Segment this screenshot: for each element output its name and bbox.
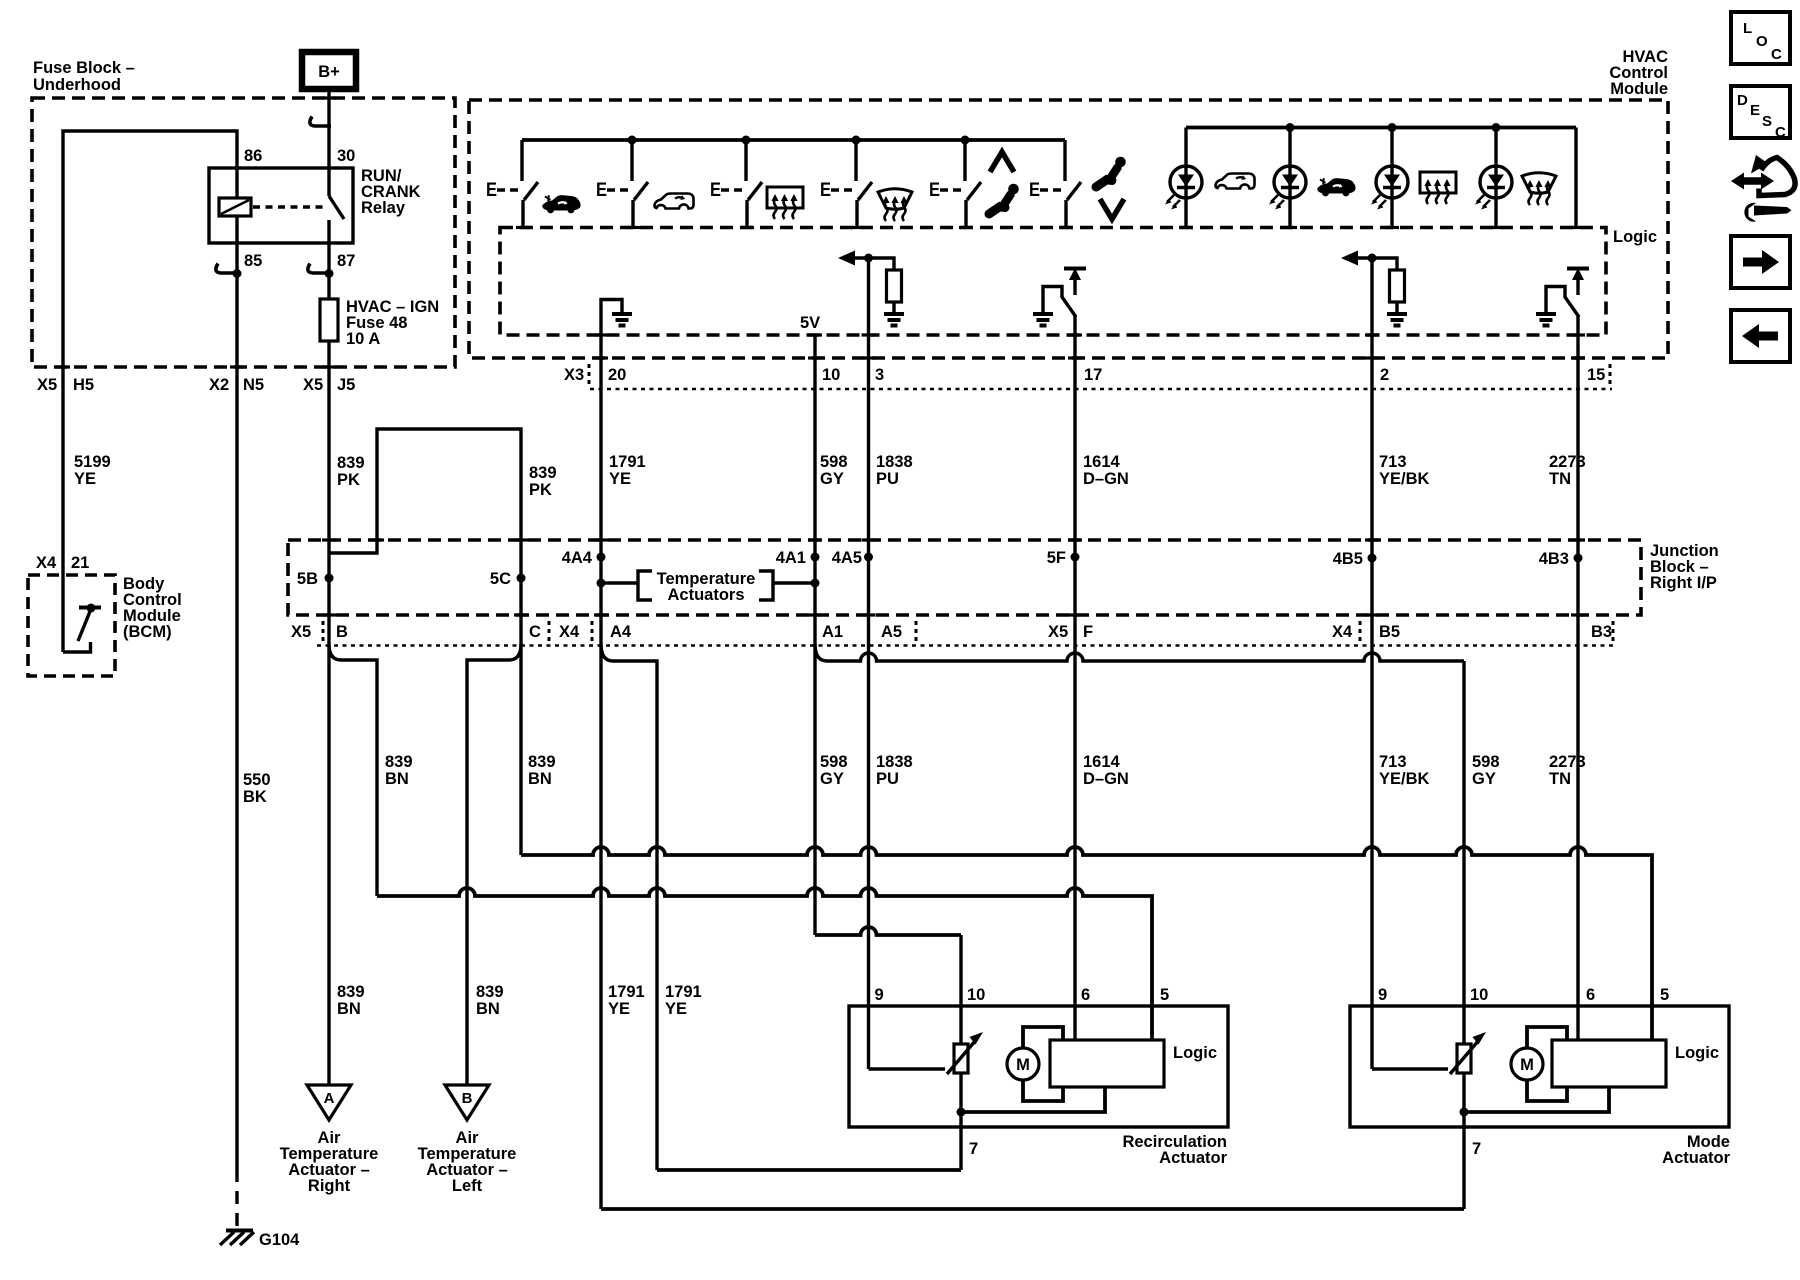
wire B+ to relay 30 (327, 89, 330, 196)
pin3 internal: junction dot (864, 254, 873, 263)
svg-text:15: 15 (1587, 366, 1605, 384)
wire relay 87 down (327, 243, 330, 299)
svg-text:GY: GY (820, 770, 844, 788)
svg-text:839: 839 (529, 464, 557, 482)
svg-text:F: F (1083, 623, 1093, 641)
pin17 internal switch blade (1062, 297, 1076, 317)
svg-text:O: O (1756, 33, 1768, 50)
switch S1 bottom terminal (521, 200, 524, 228)
wire 1614 D-GN pin17 to 5F (1073, 390, 1076, 615)
pin20 internal ground wire (601, 300, 622, 391)
ticks at logic box bottom (594, 333, 608, 336)
svg-text:YE: YE (665, 1000, 687, 1018)
svg-text:PK: PK (337, 471, 360, 489)
wire 5199 YE down to BCM (61, 367, 64, 652)
tick S3 terminal at logic box edge (740, 226, 754, 229)
svg-text:E: E (596, 180, 607, 201)
svg-text:85: 85 (244, 252, 262, 270)
svg-text:4A4: 4A4 (562, 549, 593, 567)
switch S2 E dashed link (607, 188, 631, 192)
logic box (1050, 1040, 1164, 1087)
svg-text:E: E (710, 180, 721, 201)
wire x1464 down to mode pin 10 (1462, 661, 1465, 1044)
icon S5 seat (989, 184, 1019, 214)
839 PK loop 5B to 5C (329, 429, 521, 615)
svg-text:839: 839 (337, 983, 365, 1001)
node 4B3 (1574, 554, 1583, 563)
svg-text:5V: 5V (800, 314, 820, 332)
svg-text:PK: PK (529, 481, 552, 499)
switch S6 E dashed link (1040, 188, 1064, 192)
icon LED2 A/C filled car (1317, 178, 1356, 196)
pin3 internal left arrow (852, 256, 869, 259)
svg-text:839: 839 (337, 454, 365, 472)
pin2 wire down (1370, 258, 1373, 390)
wire y935 598 GY to recirc pin 10 (815, 927, 961, 935)
module connector row bottom dotted line (590, 388, 1612, 390)
svg-text:Actuator: Actuator (1159, 1149, 1227, 1167)
svg-text:X5: X5 (1048, 623, 1068, 641)
wire H5 branch to relay 86 (63, 131, 237, 367)
svg-text:4A5: 4A5 (832, 549, 862, 567)
svg-text:Actuators: Actuators (667, 586, 744, 604)
wire 598 GY pin10 to 4A1 (813, 390, 816, 615)
wire 1838 PU pin3 to 4A5 (867, 390, 870, 615)
wire 550 BK dashed segment to ground (235, 1169, 238, 1228)
icon LED1 recirculation car (1215, 174, 1254, 189)
svg-text:TN: TN (1549, 770, 1571, 788)
tick S5 terminal at logic box edge (959, 226, 973, 229)
switch bus wire left (522, 138, 1065, 142)
ticks at fuse block bottom edge (56, 365, 70, 368)
switch S4 E dashed link (831, 188, 855, 192)
node 5C (517, 574, 526, 583)
wire A4 straight down (1791 YE) (599, 615, 602, 1209)
wire A5 down to recirc pin 9 (1838 PU) (867, 615, 870, 1069)
svg-text:S: S (1762, 113, 1772, 130)
icon S6 chevron down (1100, 199, 1124, 219)
pin17 internal ground branch (1043, 287, 1062, 314)
svg-text:E: E (820, 180, 831, 201)
svg-text:713: 713 (1379, 753, 1407, 771)
svg-text:N5: N5 (243, 376, 264, 394)
connector clip on B+ wire (310, 117, 331, 127)
switch S2 blade (634, 182, 648, 200)
svg-text:C: C (1771, 46, 1782, 63)
temperature actuators tap dots (597, 579, 606, 588)
svg-text:B+: B+ (318, 63, 340, 81)
pin15 internal ground branch (1546, 287, 1565, 314)
wire y1170 recirc pin7 link (657, 1168, 961, 1172)
svg-text:A4: A4 (610, 623, 632, 641)
LED D3 symbol (1371, 166, 1408, 210)
pin 9 internal wire to pot wiper (1372, 1067, 1448, 1070)
wire dot to logic bottom (1464, 1087, 1609, 1112)
fuse block underhood dashed box (32, 98, 455, 367)
icon S2 recirculation car (654, 194, 693, 209)
switch S6 bottom terminal (1064, 200, 1067, 228)
svg-text:BN: BN (528, 770, 552, 788)
motor M (1511, 1048, 1543, 1080)
svg-text:Logic: Logic (1675, 1044, 1719, 1062)
switch S3 E dashed link (721, 188, 745, 192)
module row right end separator (1609, 364, 1612, 384)
svg-text:2: 2 (1380, 366, 1389, 384)
svg-text:6: 6 (1586, 986, 1595, 1004)
tick S1 terminal at logic box edge (516, 226, 530, 229)
svg-text:E: E (929, 180, 940, 201)
icon S3 rear defrost (767, 187, 803, 219)
svg-text:X3: X3 (564, 366, 584, 384)
fuse 48 symbol (320, 299, 338, 341)
svg-text:4B3: 4B3 (1539, 550, 1569, 568)
wire F down to recirc pin 6 (1614 D-GN) (1073, 615, 1076, 1041)
relay 87 stub (327, 220, 330, 243)
module row separator (588, 364, 591, 384)
switch S1 E dashed link (497, 188, 521, 192)
svg-text:17: 17 (1084, 366, 1102, 384)
svg-text:87: 87 (337, 252, 355, 270)
LED D2 top wire (1288, 128, 1291, 167)
svg-text:20: 20 (608, 366, 626, 384)
junction dot pin7 (1460, 1108, 1469, 1117)
pin20 ground (612, 314, 632, 326)
svg-text:7: 7 (969, 1140, 978, 1158)
svg-text:A1: A1 (822, 623, 843, 641)
svg-text:X5: X5 (37, 376, 57, 394)
svg-text:YE: YE (609, 470, 631, 488)
svg-text:B5: B5 (1379, 623, 1400, 641)
svg-text:A5: A5 (881, 623, 902, 641)
svg-text:839: 839 (476, 983, 504, 1001)
pin10 wire from 5V (813, 335, 816, 390)
svg-text:Right I/P: Right I/P (1650, 574, 1717, 592)
ticks at junction block top (322, 538, 336, 541)
junction block dashed box (288, 540, 1641, 615)
svg-text:10 A: 10 A (346, 330, 380, 348)
svg-text:YE/BK: YE/BK (1379, 470, 1430, 488)
svg-text:9: 9 (1378, 986, 1387, 1004)
node 4B5 (1368, 554, 1377, 563)
switch S2 bottom terminal (631, 200, 634, 228)
potentiometer (954, 1044, 968, 1073)
switch S5 bottom terminal (964, 200, 967, 228)
junction row bottom dotted line (317, 644, 1614, 646)
tick B+ wire at fuse box top (322, 96, 336, 99)
svg-text:5F: 5F (1047, 549, 1066, 567)
LED D1 symbol (1165, 166, 1202, 210)
svg-text:E: E (1750, 102, 1760, 119)
svg-text:Left: Left (452, 1177, 483, 1195)
wire relay 85 down (550 BK to G104) (235, 216, 238, 1169)
svg-text:598: 598 (820, 453, 848, 471)
pin15 wire down (1576, 316, 1579, 390)
svg-text:6: 6 (1081, 986, 1090, 1004)
svg-text:10: 10 (822, 366, 840, 384)
svg-text:1791: 1791 (609, 453, 646, 471)
LED D3 bottom wire (1390, 198, 1393, 228)
svg-text:3: 3 (875, 366, 884, 384)
wire 2273 TN pin15 to 4B3 (1576, 390, 1579, 615)
node 5F (1071, 553, 1080, 562)
ticks at module box bottom (594, 356, 608, 359)
svg-text:H5: H5 (73, 376, 94, 394)
svg-text:(BCM): (BCM) (123, 623, 172, 641)
svg-text:E: E (486, 180, 497, 201)
bus junction dots (628, 136, 637, 145)
pin3 wire down (867, 258, 870, 390)
tick S6 terminal at logic box edge (1059, 226, 1073, 229)
wire 1791 YE pin20 to 4A4 (599, 390, 602, 615)
svg-text:TN: TN (1549, 470, 1571, 488)
svg-text:5: 5 (1160, 986, 1169, 1004)
node 4A4 (597, 553, 606, 562)
switch S6 blade (1067, 182, 1081, 200)
pin2 internal: junction dot (1368, 254, 1377, 263)
switch S4 blade (858, 182, 872, 200)
svg-text:839: 839 (385, 753, 413, 771)
switch S1 top terminal (520, 140, 523, 181)
wire 713 YE/BK pin2 to 4B5 (1370, 390, 1373, 615)
B+ power symbol (302, 52, 356, 89)
motor M (1007, 1048, 1039, 1080)
mode actuator box (1350, 1006, 1729, 1127)
svg-text:21: 21 (71, 554, 89, 572)
bus end wire into logic (1574, 128, 1577, 228)
wire fuse to junction block (839 PK) (327, 341, 330, 615)
logic box (1552, 1040, 1666, 1087)
relay RUN/CRANK box (209, 168, 353, 243)
svg-text:1838: 1838 (876, 753, 913, 771)
motor to logic brackets (1023, 1027, 1063, 1048)
pin3 internal resistor to ground (869, 258, 895, 270)
wire A4 branch to x657 (1791 YE) (601, 644, 657, 1170)
next button right arrow (1731, 236, 1790, 288)
svg-text:X4: X4 (36, 554, 57, 572)
svg-text:YE/BK: YE/BK (1379, 770, 1430, 788)
pin2 internal left arrow (1355, 256, 1372, 259)
LED D4 bottom wire (1494, 198, 1497, 228)
icon LED4 windshield defrost (1522, 173, 1556, 205)
svg-text:L: L (1743, 20, 1752, 37)
HVAC control module dashed box (469, 100, 1668, 358)
svg-text:10: 10 (967, 986, 985, 1004)
relay switch blade (329, 196, 344, 219)
svg-text:1614: 1614 (1083, 753, 1121, 771)
svg-text:5: 5 (1660, 986, 1669, 1004)
svg-text:Logic: Logic (1173, 1044, 1217, 1062)
svg-text:PU: PU (876, 770, 899, 788)
LED bus dots (1286, 123, 1295, 132)
svg-text:Logic: Logic (1613, 228, 1657, 246)
wire C straight down (839 BN) to bus (519, 615, 522, 855)
svg-text:BN: BN (476, 1000, 500, 1018)
svg-text:YE: YE (608, 1000, 630, 1018)
BCM internal switch (63, 642, 91, 652)
wire A1 straight down (598 GY) (813, 615, 816, 935)
icon S4 windshield defrost (878, 189, 912, 221)
svg-text:Relay: Relay (361, 199, 406, 217)
svg-text:M: M (1016, 1056, 1030, 1074)
svg-text:1614: 1614 (1083, 453, 1121, 471)
relay coil-switch dashed link (253, 205, 324, 209)
svg-text:5B: 5B (297, 570, 318, 588)
wire C branch to x467 down to triangle B (839 BN) (467, 644, 521, 1085)
connector clip on 87 wire (308, 264, 329, 274)
pin15 internal supply arrow (1567, 267, 1589, 271)
icon LED3 rear defrost (1420, 172, 1456, 204)
icon S1 A/C filled car (542, 195, 581, 213)
svg-text:2273: 2273 (1549, 753, 1586, 771)
ground G104 (226, 1229, 253, 1233)
svg-text:1791: 1791 (665, 983, 702, 1001)
svg-text:J5: J5 (337, 376, 355, 394)
node 4A1 (811, 553, 820, 562)
wire B5 down to mode pin 9 (713 YE/BK) (1370, 615, 1373, 1069)
icon S5 chevron up (990, 152, 1014, 172)
LED D4 top wire (1494, 128, 1497, 167)
BCM dashed box (28, 575, 115, 676)
pin2 internal resistor to ground (1372, 258, 1397, 270)
svg-text:G104: G104 (259, 1231, 300, 1249)
wire B branch to x377 (839 BN) (329, 644, 377, 896)
svg-text:X4: X4 (1332, 623, 1353, 641)
svg-text:X5: X5 (303, 376, 323, 394)
svg-text:M: M (1520, 1056, 1534, 1074)
LED D2 symbol (1269, 166, 1306, 210)
wire y1209 mode pin7 link (601, 1207, 1464, 1211)
bus wire y896 B to recirc pin 5 (377, 888, 1152, 1041)
motor to logic brackets (1527, 1027, 1567, 1048)
triangle A (307, 1085, 351, 1120)
svg-text:Actuator: Actuator (1662, 1149, 1730, 1167)
ticks at junction block bottom (322, 613, 336, 616)
svg-text:GY: GY (820, 470, 844, 488)
LED D1 bottom wire (1184, 198, 1187, 228)
switch S3 bottom terminal (745, 200, 748, 228)
svg-text:X2: X2 (209, 376, 229, 394)
schematic nav icon arrows and wrench (1731, 155, 1795, 222)
svg-text:839: 839 (528, 753, 556, 771)
wire B3 down to mode pin 6 (2273 TN) (1576, 615, 1579, 1041)
svg-text:4B5: 4B5 (1333, 550, 1363, 568)
svg-text:Fuse Block –: Fuse Block – (33, 59, 135, 77)
pin17 wire down (1073, 316, 1076, 390)
svg-text:GY: GY (1472, 770, 1496, 788)
DESC button (1731, 86, 1790, 138)
LED D1 top wire (1184, 128, 1187, 167)
svg-text:YE: YE (74, 470, 96, 488)
temperature actuators bracket box (638, 571, 652, 600)
LED D4 symbol (1475, 166, 1512, 210)
svg-text:Underhood: Underhood (33, 76, 121, 94)
svg-text:598: 598 (1472, 753, 1500, 771)
svg-text:D–GN: D–GN (1083, 770, 1129, 788)
LED D3 top wire (1390, 128, 1393, 167)
switch S5 E dashed link (940, 188, 964, 192)
svg-text:D: D (1737, 92, 1748, 109)
tick S2 terminal at logic box edge (626, 226, 640, 229)
connector clip on 85 wire (216, 264, 237, 274)
junction dot pin7 (957, 1108, 966, 1117)
pin17 internal supply arrow (1064, 267, 1086, 271)
switch S2 top terminal (630, 140, 633, 181)
icon S6 seat (1096, 157, 1126, 187)
svg-text:1838: 1838 (876, 453, 913, 471)
svg-text:7: 7 (1472, 1140, 1481, 1158)
switch S3 blade (748, 182, 762, 200)
relay coil (219, 198, 251, 216)
svg-text:30: 30 (337, 147, 355, 165)
svg-text:A: A (324, 1090, 335, 1107)
bus wire y855 C to mode pin 5 (521, 847, 1652, 1041)
svg-text:B3: B3 (1591, 623, 1612, 641)
svg-text:Module: Module (1610, 80, 1668, 98)
back button left arrow (1731, 310, 1790, 362)
triangle B (445, 1085, 489, 1120)
pin 9 internal wire to pot wiper (869, 1067, 946, 1070)
svg-text:1791: 1791 (608, 983, 645, 1001)
logic inner dashed box (500, 228, 1606, 336)
svg-text:9: 9 (875, 986, 884, 1004)
switch S6 top terminal (1063, 140, 1066, 181)
switch S1 blade (524, 182, 538, 200)
svg-text:10: 10 (1470, 986, 1488, 1004)
node 4A5 (864, 553, 873, 562)
svg-text:PU: PU (876, 470, 899, 488)
pin15 internal switch blade (1565, 297, 1579, 317)
svg-text:BN: BN (337, 1000, 361, 1018)
svg-text:C: C (529, 623, 541, 641)
pin 7 wire down (1462, 1073, 1465, 1209)
node 5B (325, 574, 334, 583)
svg-text:C: C (1775, 124, 1786, 141)
svg-text:BK: BK (243, 788, 267, 806)
svg-text:BN: BN (385, 770, 409, 788)
svg-text:550: 550 (243, 771, 271, 789)
svg-text:2273: 2273 (1549, 453, 1586, 471)
svg-text:B: B (336, 623, 348, 641)
svg-text:X5: X5 (291, 623, 311, 641)
svg-text:B: B (462, 1090, 473, 1107)
temperature actuators link wires (601, 581, 638, 584)
LED D2 bottom wire (1288, 198, 1291, 228)
LED bus wire right (1186, 126, 1576, 130)
potentiometer (1457, 1044, 1471, 1073)
svg-text:5199: 5199 (74, 453, 111, 471)
svg-text:4A1: 4A1 (776, 549, 806, 567)
svg-text:X4: X4 (559, 623, 580, 641)
switch S4 bottom terminal (855, 200, 858, 228)
recirculation actuator box (849, 1006, 1228, 1127)
wire dot to logic bottom (961, 1087, 1105, 1112)
svg-text:86: 86 (244, 147, 262, 165)
svg-text:E: E (1029, 180, 1040, 201)
switch S3 top terminal (744, 140, 747, 181)
LOC button (1731, 12, 1790, 64)
svg-text:Right: Right (308, 1177, 351, 1195)
switch S5 blade (967, 182, 981, 200)
tick S4 terminal at logic box edge (850, 226, 864, 229)
wire A1 branch across to x1464 (598 GY) (815, 644, 1464, 661)
switch S4 top terminal (854, 140, 857, 181)
svg-text:713: 713 (1379, 453, 1407, 471)
switch S5 top terminal (963, 140, 966, 181)
svg-text:598: 598 (820, 753, 848, 771)
svg-text:D–GN: D–GN (1083, 470, 1129, 488)
pin 7 wire down (959, 1073, 962, 1170)
svg-text:5C: 5C (490, 570, 511, 588)
